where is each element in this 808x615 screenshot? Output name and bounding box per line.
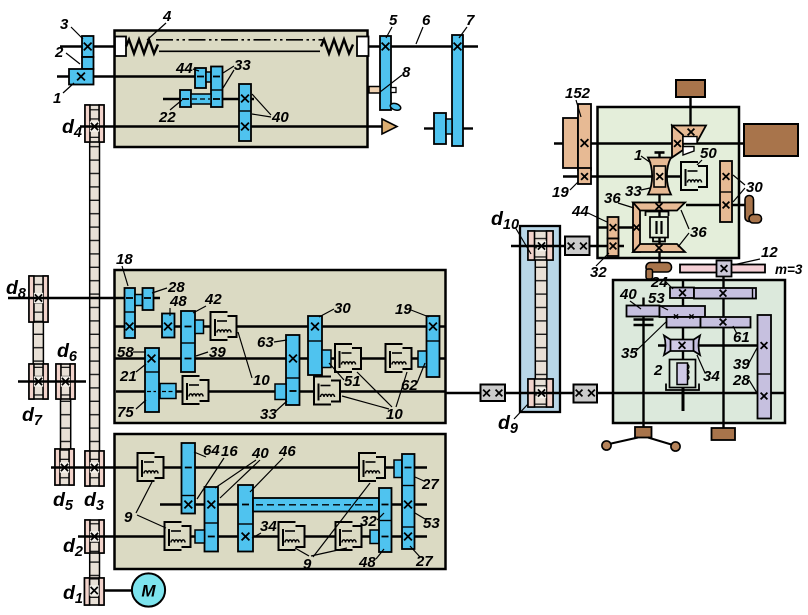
gear 152 wide (563, 118, 578, 168)
x gear30 green upper (723, 173, 730, 180)
x pulley d5 (61, 464, 68, 471)
lead screw solid lower line (159, 50, 320, 52)
svg-text:21: 21 (119, 368, 137, 385)
pulley d3 (85, 451, 104, 486)
bevel spool 1/33 (648, 158, 671, 195)
connector dash-dot (162, 391, 174, 393)
gear 42 division (181, 342, 195, 344)
tick gear40b low (208, 536, 215, 538)
x gear21 (148, 355, 156, 363)
clutch 62-side (387, 345, 411, 371)
x pulley d3 (91, 464, 98, 471)
bevel pair top: horizontal-axis gear (672, 126, 683, 158)
gear 30 green division (720, 191, 732, 193)
svg-text:32: 32 (590, 264, 607, 281)
x bevel top horizontal (674, 140, 681, 147)
thrust bearing (capacitor) top plate (634, 318, 654, 321)
belt housing d10-d9 (blue) (520, 226, 560, 412)
gear 46 division (238, 523, 253, 525)
tick gear46 (242, 504, 249, 506)
svg-text:12: 12 (761, 244, 778, 261)
gear 72 bar (694, 288, 756, 299)
svg-text:75: 75 (117, 404, 134, 421)
shaft II (114, 325, 446, 327)
pulley d6 (56, 364, 75, 399)
x gear18 low (126, 323, 134, 331)
gear 39/28 division (758, 373, 772, 375)
gear 32 (green) (608, 239, 619, 257)
tripod leg right (648, 438, 673, 446)
shaft 2 (57, 75, 221, 77)
svg-text:8: 8 (402, 64, 411, 81)
svg-text:40: 40 (251, 445, 269, 462)
svg-text:27: 27 (415, 553, 433, 570)
gear 40 double (top box) (239, 84, 251, 141)
x pulley d6 (62, 378, 69, 385)
gear 27/53/27 column (402, 454, 415, 549)
shaft I (from d8) (8, 297, 160, 299)
x col28 (761, 393, 768, 400)
gear 19 column (middle box) (427, 316, 440, 377)
spring 4 right (321, 40, 353, 54)
svg-text:30: 30 (334, 300, 351, 317)
gear 7 (452, 35, 463, 146)
bottom gearbox housing (115, 434, 446, 569)
connector before 48 (370, 530, 379, 544)
worm 2 bottom bracket (666, 384, 699, 391)
gear 1 (69, 69, 94, 85)
junction mark a (674, 314, 678, 318)
motor shaft (104, 589, 132, 591)
vertical table shaft (642, 298, 644, 429)
x diff top (656, 203, 663, 210)
x diff left bar (634, 225, 640, 231)
hub 22-33 (191, 94, 211, 104)
differential inner bottom bracket (653, 238, 665, 242)
gear 30 column (green) (720, 161, 732, 222)
hub under 7 (446, 119, 452, 134)
connector shaft C (195, 530, 205, 543)
crank handle vertical (745, 196, 754, 222)
x gear53 up (404, 501, 412, 509)
svg-text:53: 53 (648, 290, 665, 307)
tripod leg left (609, 438, 638, 445)
belt d8-d7 (33, 320, 43, 366)
gear 72 end tick (752, 288, 754, 299)
gear 63/33 column (286, 335, 300, 405)
short shaft under 7 (424, 127, 434, 129)
gear 39/28 column (758, 315, 772, 419)
main output line to table box (446, 392, 784, 394)
clutch 10b (315, 378, 339, 404)
arrow end of shaft 4 (382, 119, 397, 134)
green box second shaft (563, 175, 682, 177)
motor M (132, 573, 165, 606)
svg-text:18: 18 (116, 251, 133, 268)
svg-text:50: 50 (700, 145, 717, 162)
gear 30 column (middle box) (308, 316, 322, 375)
x gear40 upper (241, 95, 249, 103)
pulley d1 (85, 578, 105, 605)
splined shaft (253, 498, 379, 512)
svg-text:2: 2 (54, 44, 64, 61)
vertical shaft hob top (689, 97, 691, 127)
svg-text:2: 2 (653, 362, 663, 379)
clutch shaft IV left (184, 377, 208, 403)
svg-text:19: 19 (395, 301, 412, 318)
worm 2 outer (670, 360, 696, 388)
worm 2 screw (677, 363, 688, 385)
clutch shaft C right (337, 523, 361, 549)
svg-text:39: 39 (733, 356, 750, 373)
bevel 34 left wing (664, 336, 671, 356)
gear 30 tab (322, 350, 331, 368)
x pulley d9 (538, 389, 545, 396)
bevel34 shaft (658, 344, 758, 346)
bevel spool hub (654, 166, 666, 187)
bracket right (screw support) (357, 37, 369, 57)
gear 19 small (under 152) (578, 168, 591, 184)
shaft IV (116, 390, 446, 392)
svg-text:28: 28 (732, 372, 750, 389)
gear 22 (180, 90, 191, 107)
svg-text:36: 36 (690, 224, 707, 241)
column division 21/75 (145, 371, 159, 373)
green box third shaft (to crank) (686, 204, 745, 206)
gear 3 (82, 36, 94, 57)
gear 18 double column (125, 288, 136, 338)
svg-text:33: 33 (234, 57, 251, 74)
rack 12 bar (680, 265, 765, 273)
handle ellipse below gear 5 (389, 102, 401, 111)
svg-text:22: 22 (158, 109, 176, 126)
dash gear75 (147, 391, 156, 393)
clutch 9b (166, 523, 190, 549)
x bar24 (679, 289, 686, 296)
svg-text:42: 42 (204, 291, 222, 308)
differential 36 bottom bevel (633, 244, 685, 252)
gear 48 (middle box) (162, 314, 175, 338)
svg-text:9: 9 (303, 556, 312, 573)
x gear40b (207, 501, 215, 509)
tick gear33 mid (290, 390, 297, 392)
tick gear28 (144, 297, 151, 299)
belt d2-d1 (90, 550, 100, 580)
x gear152 (581, 139, 589, 147)
svg-text:51: 51 (344, 373, 361, 390)
gear 61 bar (701, 317, 751, 328)
svg-text:152: 152 (565, 85, 591, 102)
pulley d5 (55, 449, 74, 485)
gear 30 division (308, 340, 322, 342)
svg-text:48: 48 (358, 554, 376, 571)
crank handle knob (749, 215, 762, 224)
x gear48 (164, 323, 172, 331)
x col39 (761, 342, 768, 349)
svg-text:10: 10 (253, 372, 270, 389)
svg-text:40: 40 (271, 109, 289, 126)
svg-text:3: 3 (60, 16, 69, 33)
x pulley d10 (538, 242, 545, 249)
shaft B (160, 503, 427, 505)
clutch shaft A right (360, 454, 384, 480)
x gear44 green (610, 224, 617, 231)
tick gear42 (185, 326, 192, 328)
tick gear64 (185, 467, 192, 469)
hob head inner shaft y246 (598, 245, 625, 247)
tick gear33 up (213, 76, 220, 78)
svg-text:36: 36 (604, 190, 621, 207)
svg-text:9: 9 (124, 509, 133, 526)
bevel 34 hub (671, 340, 694, 352)
x gear53 low (404, 533, 412, 541)
pin 8 (369, 87, 380, 94)
gear 40 column (bottom box) (205, 487, 219, 552)
elastic coupling tab (646, 269, 653, 279)
gear 58/21/75 column (145, 348, 159, 412)
differential 36 top bevel (633, 203, 685, 211)
tick gear39 (185, 358, 192, 360)
table drive housing (green, bottom right) (613, 280, 785, 423)
connector before 27 (394, 460, 402, 478)
coupling d10-side (565, 237, 590, 256)
shaft C (from d2) (78, 535, 427, 537)
x pulley d1 (91, 587, 98, 594)
x spool hub (656, 173, 663, 180)
belt d6-d5 (61, 397, 71, 450)
shaft 4 (with arrow, to d4) (80, 125, 383, 127)
differential 36 left bar (633, 203, 640, 253)
gear 42/39 column (181, 311, 195, 372)
coupling right of d9 (574, 385, 598, 403)
pulley d4 (85, 105, 104, 142)
x gear19 mid (429, 323, 437, 331)
gear 19 tab (418, 351, 427, 367)
x pulley d7 (35, 378, 42, 385)
tripod foot right (671, 442, 680, 451)
gear 28 (middle box) (143, 288, 154, 310)
vertical worm shaft lower stub (682, 386, 685, 411)
shaft 3 (163, 98, 254, 100)
gear 40 division (239, 110, 251, 112)
svg-text:1: 1 (53, 90, 61, 107)
x gear16 (184, 501, 192, 509)
svg-text:m=3: m=3 (775, 262, 803, 277)
differential inner top bracket (646, 212, 669, 217)
svg-text:53: 53 (423, 515, 440, 532)
svg-text:M: M (141, 582, 156, 601)
tick gear27a (405, 467, 412, 469)
svg-text:32: 32 (360, 513, 377, 530)
junction mark b (689, 314, 693, 318)
bracket left (screw support) (115, 37, 126, 57)
tripod foot left (602, 441, 611, 450)
vertical rack shaft (722, 276, 724, 428)
table support block (635, 427, 652, 438)
feed gearbox housing (middle) (115, 270, 446, 423)
x rack pinion (721, 265, 728, 272)
gear 64/16 column (182, 443, 196, 514)
differential dog clutch bars (655, 221, 657, 234)
x gear40 lower (241, 123, 249, 131)
x gear63 (289, 355, 297, 363)
shaft 1 middle-right segment (357, 45, 478, 47)
gear 44 (top box) (195, 68, 206, 88)
gear 44 (green) (608, 217, 619, 239)
gear 46/34 column (238, 485, 253, 552)
svg-text:40: 40 (619, 286, 637, 303)
x gear46 low (242, 533, 250, 541)
connector left of 33 (275, 384, 286, 400)
elastic coupling pill (646, 263, 672, 273)
svg-text:33: 33 (625, 183, 642, 200)
gear 5 (380, 36, 391, 110)
svg-text:24: 24 (650, 274, 668, 291)
bearing x gear7 (454, 43, 462, 51)
connector shaft IV (160, 384, 176, 399)
coupling left of d9 (481, 385, 506, 402)
differential inner box (650, 217, 668, 238)
speed gearbox housing (top) (115, 31, 368, 148)
thrust bearing bottom plate (634, 324, 654, 327)
pulley d2 (85, 520, 104, 553)
gear 40 bar (627, 306, 660, 317)
x bar61 (720, 319, 727, 326)
green box top shaft (554, 142, 745, 144)
belt d4-d3 (90, 140, 100, 452)
x bevel top vertical (688, 129, 695, 136)
pulley d7 (29, 364, 48, 399)
svg-text:39: 39 (209, 344, 226, 361)
svg-text:34: 34 (260, 518, 277, 535)
bevel pair top: vertical-axis gear (672, 126, 706, 143)
gear 18 division (125, 311, 136, 313)
gear 53 bar (660, 306, 706, 317)
splined shaft centreline (256, 504, 376, 506)
bearing x gear5 (382, 43, 390, 51)
vertical worm shaft (682, 281, 684, 360)
svg-text:7: 7 (466, 12, 475, 29)
gear 33 double (top box) (211, 67, 223, 108)
tick gear33 low (213, 98, 220, 100)
svg-text:46: 46 (278, 443, 296, 460)
x pulley d2 (91, 533, 98, 540)
clutch shaft C middle (280, 523, 304, 549)
x gear30 mid (311, 323, 319, 331)
bevel 34 right wing (693, 336, 700, 356)
gear pair under 7 (434, 113, 446, 144)
tick gear48b (382, 536, 389, 538)
shaft A (from d5/d3) (51, 466, 427, 468)
gear 32/48 division (379, 520, 392, 522)
gear 42 side tab (195, 320, 204, 334)
gear 19 division (427, 340, 440, 342)
svg-text:19: 19 (552, 184, 569, 201)
rack shaft support (712, 428, 736, 440)
tick gear44 (197, 76, 204, 78)
clutch 9a (139, 454, 163, 480)
svg-text:27: 27 (421, 476, 439, 493)
gear 63/33 division (286, 377, 300, 379)
svg-text:1: 1 (634, 147, 642, 164)
svg-text:44: 44 (571, 203, 589, 220)
svg-text:33: 33 (260, 406, 277, 423)
hob head housing (green, top right) (598, 107, 740, 258)
svg-text:4: 4 (162, 8, 172, 25)
spring 4 left (126, 40, 158, 54)
bearing x gear1 (77, 73, 85, 81)
belt d10-d9 (535, 258, 547, 384)
gear 2 (82, 57, 94, 69)
shaft 1 (top, spindle drive) left segment (60, 45, 126, 47)
x gear30 green lower (723, 202, 730, 209)
hub 18-28 (135, 295, 143, 306)
bearing x gear3 (84, 43, 92, 51)
clutch 51 (336, 345, 360, 371)
pulley d8 (29, 276, 48, 322)
bevel hub white lower (683, 147, 694, 156)
clutch 50 (682, 163, 706, 189)
svg-text:62: 62 (401, 377, 418, 394)
x pulley d4 (91, 123, 98, 130)
svg-text:44: 44 (175, 60, 193, 77)
vertical differential shaft (658, 152, 660, 264)
gear 35 bar (667, 317, 701, 328)
x diff bottom (656, 245, 663, 252)
clutch 10a (212, 313, 236, 339)
shaft III (114, 357, 446, 359)
gear 27/53 division (402, 485, 415, 487)
svg-text:35: 35 (621, 345, 638, 362)
vertical differential shaft cap (655, 151, 665, 154)
svg-text:58: 58 (117, 344, 134, 361)
gear 64 division (182, 495, 196, 497)
tick gear18 up (126, 297, 133, 299)
x pulley d8 (35, 294, 42, 301)
lead screw dash-dot upper line (156, 39, 324, 41)
svg-text:5: 5 (389, 12, 398, 29)
svg-text:48: 48 (169, 293, 187, 310)
tick gear32b (382, 504, 389, 506)
svg-text:6: 6 (422, 12, 431, 29)
hub 44-33 (206, 72, 211, 82)
gear 24 bar (670, 288, 694, 299)
x bar72 (720, 290, 727, 297)
rack pinion block (717, 261, 732, 277)
brown block above hob head (676, 80, 705, 97)
pulley d10 (528, 231, 553, 260)
x bevel34 (679, 342, 686, 349)
gear 40b division (205, 522, 219, 524)
x gear19 small (581, 173, 588, 180)
svg-text:63: 63 (257, 334, 274, 351)
pulley d9 (528, 379, 553, 407)
tick gear22 (182, 98, 189, 100)
gear 33 division (211, 89, 223, 91)
gear 152 tall (578, 104, 591, 170)
svg-text:30: 30 (746, 179, 763, 196)
pin 8 notch (391, 88, 396, 93)
hob head upper inner shaft y228 (598, 226, 635, 228)
gear 32/48 column (379, 488, 392, 552)
x gear32 green (610, 243, 617, 250)
shaft from d10 to hob head (511, 245, 597, 247)
bevel hub white (683, 137, 697, 144)
brown block right (hob slide) (744, 124, 798, 156)
hub dashed centreline (192, 98, 210, 100)
countershaft d7-d6 (18, 380, 86, 382)
gear 53/27 division (402, 526, 415, 528)
